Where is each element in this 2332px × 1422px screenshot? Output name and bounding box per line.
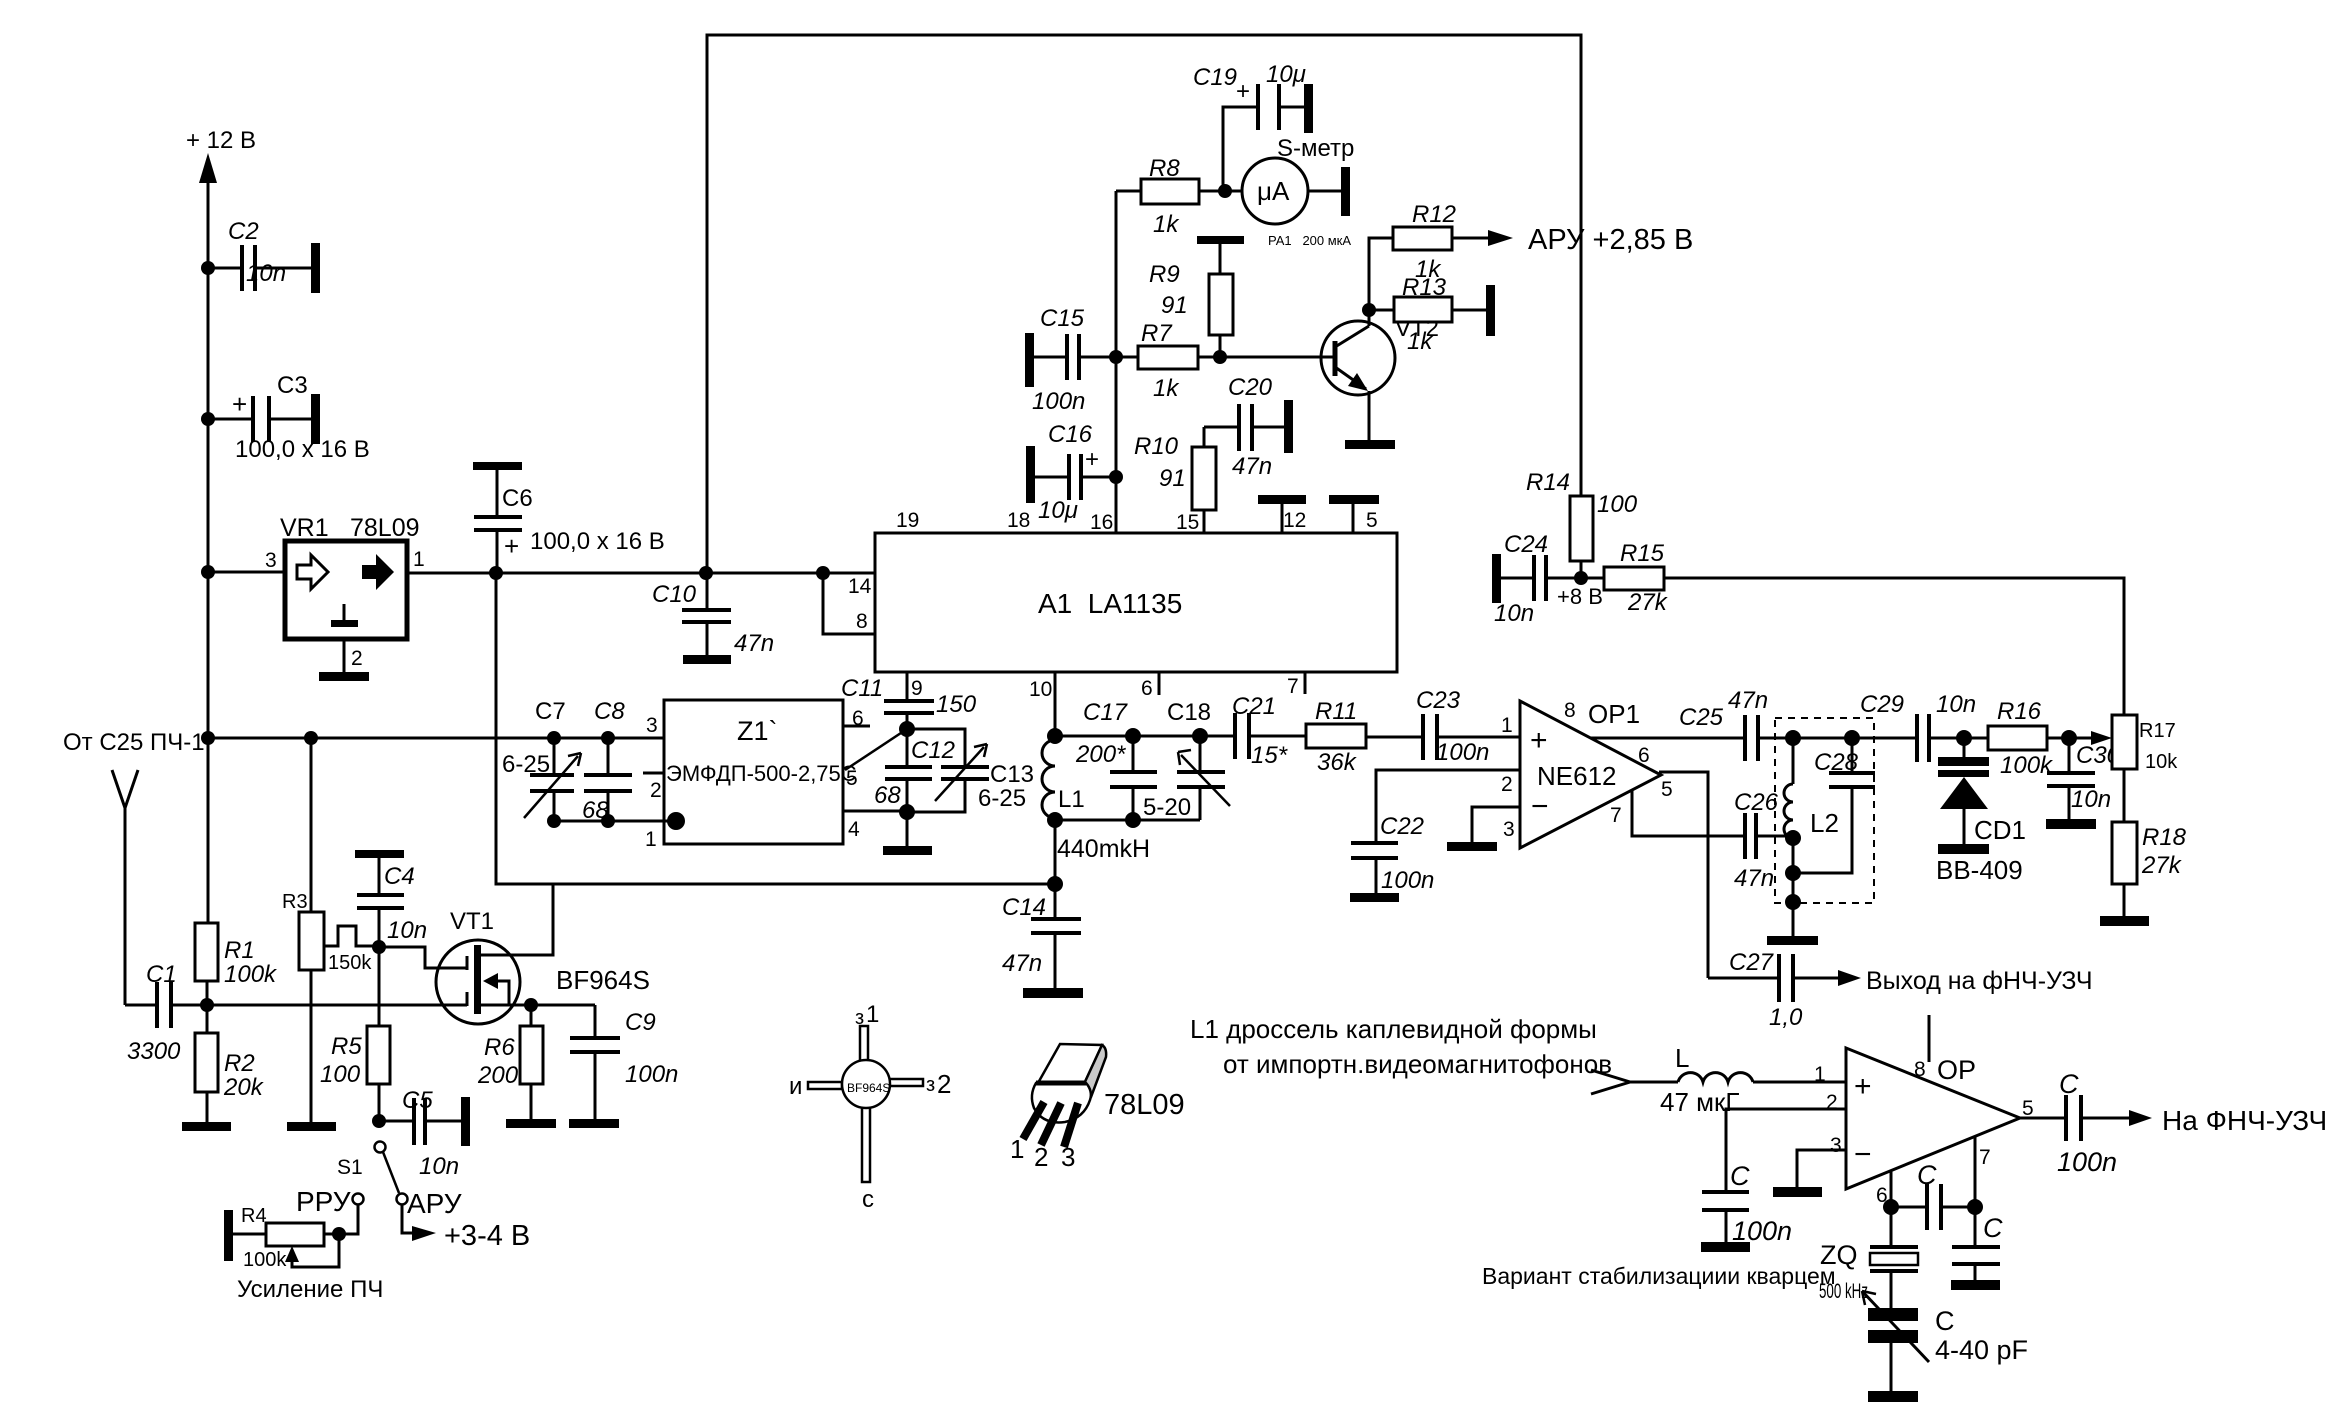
svg-text:1: 1: [1010, 1134, 1024, 1164]
IC 78L09 package icon: [1010, 1044, 1185, 1172]
ground C9: [569, 1119, 619, 1128]
svg-text:R11: R11: [1315, 698, 1357, 725]
capacitor C14: [1002, 884, 1081, 988]
svg-text:3: 3: [1503, 818, 1515, 841]
svg-text:91: 91: [1161, 292, 1188, 319]
svg-text:+: +: [1530, 724, 1548, 757]
resistor R15: [1581, 540, 1669, 616]
wire 9V rail: [407, 566, 875, 580]
svg-text:−: −: [1854, 1138, 1872, 1171]
svg-text:200*: 200*: [1075, 741, 1126, 768]
resistor R8: [1116, 155, 1243, 238]
wire OP pin6 stub: [1883, 1170, 1899, 1215]
svg-text:10n: 10n: [1936, 691, 1976, 718]
svg-text:3: 3: [265, 549, 277, 572]
svg-text:R15: R15: [1620, 540, 1665, 567]
wire IC pin10 stub: [1029, 672, 1055, 736]
wire IC pin5 to ground: [1329, 495, 1379, 533]
capacitor C6 electrolytic: [473, 462, 665, 573]
capacitor C5: [379, 1087, 461, 1180]
wire Z1 pin4 to C12: [843, 810, 908, 813]
capacitor C8: [584, 698, 632, 821]
svg-text:3300: 3300: [127, 1038, 181, 1065]
svg-text:R4: R4: [241, 1205, 267, 1227]
svg-text:5: 5: [1661, 778, 1673, 801]
capacitor C 100n bottom left: [1702, 1161, 1792, 1246]
meter PA1 S-метр: [1242, 135, 1354, 248]
svg-text:6: 6: [1141, 677, 1153, 700]
resistor R16: [1988, 698, 2112, 779]
wire OP1 pin3 to ground: [1447, 807, 1520, 851]
svg-text:C28: C28: [1814, 749, 1859, 776]
svg-text:+: +: [232, 389, 247, 419]
ground C14: [1023, 988, 1083, 998]
svg-text:18: 18: [1007, 509, 1030, 532]
svg-text:14: 14: [848, 575, 872, 598]
diode CD1 BB-409 varicap: [1936, 738, 2026, 885]
svg-text:3: 3: [646, 714, 658, 737]
svg-text:2: 2: [1034, 1142, 1048, 1172]
svg-text:7: 7: [1979, 1146, 1991, 1169]
wire OP1 pin6 out: [1591, 737, 1745, 740]
ground R4: [224, 1210, 233, 1261]
node От С25 ПЧ-1 input label: [63, 729, 205, 756]
ground C2: [311, 243, 320, 293]
svg-text:100,0 x 16 В: 100,0 x 16 В: [530, 528, 665, 555]
wire IC pin9 stub: [907, 672, 923, 701]
wire Z1 pin1 row: [547, 812, 685, 830]
capacitor C1: [125, 961, 214, 1065]
svg-text:R12: R12: [1412, 201, 1456, 228]
svg-text:C6: C6: [502, 485, 533, 512]
switch S1: [337, 1142, 408, 1205]
svg-text:6-25: 6-25: [978, 785, 1026, 812]
capacitor C27: [1708, 949, 1861, 1031]
svg-text:1,0: 1,0: [1769, 1004, 1803, 1031]
wire OP pin8 stub: [1928, 1015, 1931, 1062]
svg-text:OP1: OP1: [1588, 699, 1640, 729]
node АРУ label: [407, 1188, 462, 1219]
svg-text:C2: C2: [228, 218, 259, 245]
svg-text:R2: R2: [224, 1050, 255, 1077]
wire L1 bottom row: [1055, 812, 1200, 828]
svg-text:C5: C5: [402, 1087, 433, 1114]
capacitor C23: [1416, 687, 1520, 766]
node Выход на фНЧ-УЗЧ label: [1866, 967, 2093, 995]
svg-text:10n: 10n: [387, 917, 427, 944]
svg-text:R6: R6: [484, 1034, 515, 1061]
svg-text:+: +: [504, 531, 519, 561]
svg-text:C23: C23: [1416, 687, 1461, 714]
svg-text:АРУ +2,85 В: АРУ +2,85 В: [1528, 224, 1693, 256]
resistor R6: [477, 1005, 543, 1119]
svg-text:100: 100: [1597, 491, 1638, 518]
wire OP1 pin2 to C22: [1376, 770, 1520, 843]
svg-text:7: 7: [1610, 804, 1622, 827]
capacitor C2: [208, 218, 311, 291]
wire OP pin2 to C: [1726, 1109, 1846, 1192]
svg-text:РРУ: РРУ: [296, 1186, 351, 1217]
svg-text:Вариант стабилизациии кварцем: Вариант стабилизациии кварцем: [1482, 1263, 1836, 1289]
wire top feedback loop: [707, 35, 1581, 573]
svg-text:3: 3: [1061, 1142, 1075, 1172]
svg-text:VR1: VR1: [280, 514, 329, 542]
svg-text:68: 68: [874, 782, 901, 809]
svg-text:C14: C14: [1002, 894, 1046, 921]
svg-text:78L09: 78L09: [1104, 1089, 1185, 1121]
svg-text:OP: OP: [1937, 1055, 1976, 1085]
capacitor C10: [652, 573, 774, 657]
wire 9V branch down and across: [496, 573, 1055, 884]
ground C right: [1951, 1280, 2000, 1290]
svg-text:20k: 20k: [223, 1074, 265, 1101]
svg-text:C7: C7: [535, 698, 566, 725]
svg-text:12: 12: [1283, 509, 1306, 532]
node РРУ label: [296, 1186, 351, 1217]
wire IF input row: [208, 731, 664, 745]
svg-text:36k: 36k: [1317, 749, 1358, 776]
node dashed box L2 C28: [1775, 718, 1874, 903]
svg-text:C26: C26: [1734, 789, 1779, 816]
svg-text:100n: 100n: [625, 1061, 678, 1088]
capacitor C4: [355, 850, 427, 947]
capacitor C right to ground: [1952, 1207, 2003, 1280]
ground C20: [1284, 400, 1293, 453]
node Вариант стабилизациии кварцем label: [1482, 1263, 1836, 1289]
transistor VT2: [1321, 303, 1439, 440]
svg-text:1: 1: [413, 548, 425, 571]
svg-text:3: 3: [1830, 1134, 1842, 1157]
capacitor C18 variable: [1143, 699, 1230, 821]
svg-text:10μ: 10μ: [1266, 61, 1306, 88]
svg-text:L1: L1: [1058, 786, 1085, 813]
svg-text:10n: 10n: [419, 1153, 459, 1180]
svg-text:2: 2: [650, 779, 662, 802]
svg-text:C8: C8: [594, 698, 625, 725]
resistor R18: [2112, 822, 2187, 916]
wire source row: [207, 1004, 467, 1007]
svg-text:100n: 100n: [1436, 739, 1489, 766]
capacitor C13 variable: [935, 744, 1034, 812]
node junction dots on +12V rail: [201, 261, 215, 745]
svg-text:R14: R14: [1526, 469, 1570, 496]
svg-text:1: 1: [866, 1001, 879, 1028]
svg-text:На ФНЧ-УЗЧ: На ФНЧ-УЗЧ: [2162, 1105, 2327, 1136]
svg-text:1k: 1k: [1407, 328, 1434, 355]
svg-text:CD1: CD1: [1974, 815, 2026, 845]
svg-text:+: +: [1236, 78, 1250, 105]
resistor R2: [195, 1005, 265, 1122]
potentiometer R4: [233, 1205, 339, 1271]
svg-text:C: C: [1935, 1306, 1955, 1336]
capacitor C26: [1734, 789, 1793, 892]
resistor R10: [1134, 427, 1216, 533]
node Усиление ПЧ label: [237, 1276, 383, 1303]
capacitor C9: [570, 1005, 678, 1119]
wire IC pin12 to ground: [1258, 495, 1306, 533]
svg-text:BB-409: BB-409: [1936, 855, 2023, 885]
svg-text:+: +: [1854, 1070, 1872, 1103]
svg-text:C19: C19: [1193, 64, 1237, 91]
svg-text:NE612: NE612: [1537, 761, 1617, 791]
svg-text:C22: C22: [1380, 813, 1424, 840]
IC A1 LA1135: [875, 533, 1397, 672]
svg-text:6-25: 6-25: [502, 751, 550, 778]
capacitor C22: [1351, 813, 1434, 894]
svg-text:C21: C21: [1232, 693, 1276, 720]
svg-text:5: 5: [1366, 509, 1378, 532]
svg-text:R10: R10: [1134, 433, 1179, 460]
capacitor C16 electrolytic: [1026, 421, 1116, 524]
wire VR1 input: [208, 571, 285, 574]
svg-text:C: C: [1730, 1161, 1750, 1191]
svg-text:R5: R5: [331, 1033, 362, 1060]
svg-text:−: −: [1531, 790, 1549, 823]
ground C10: [683, 655, 731, 664]
ground C 100n bottom left: [1701, 1242, 1750, 1252]
svg-text:4-40 pF: 4-40 pF: [1935, 1335, 2028, 1365]
wire C13 branch box: [907, 729, 965, 812]
svg-text:15*: 15*: [1251, 742, 1288, 769]
crystal ZQ 500 kHz: [1819, 1207, 1918, 1308]
resistor R9: [1149, 236, 1244, 357]
wire РРУ down to R4: [324, 1204, 358, 1241]
node IC top pin labels: [896, 509, 1378, 534]
ground trimmer: [1868, 1391, 1918, 1402]
capacitor C12: [874, 729, 955, 820]
svg-text:C27: C27: [1729, 949, 1775, 976]
inductor L 47мкГ: [1630, 1043, 1846, 1117]
wire IC pin16 vertical: [1109, 191, 1123, 533]
svg-text:з: з: [855, 1007, 864, 1029]
capacitor C21: [1232, 693, 1306, 769]
svg-text:16: 16: [1090, 511, 1113, 534]
ground R3: [287, 1122, 336, 1131]
transistor BF964S pinout icon: [789, 1001, 951, 1213]
node На ФНЧ-УЗЧ label: [2162, 1105, 2327, 1136]
svg-text:C20: C20: [1228, 374, 1273, 401]
svg-text:з: з: [926, 1074, 935, 1096]
capacitor C feedback: [1891, 1160, 1975, 1230]
resistor R14: [1526, 469, 1638, 585]
ground C30: [2046, 819, 2096, 829]
svg-text:2: 2: [937, 1069, 951, 1099]
wire Z1 pin6 stub: [843, 725, 870, 728]
svg-text:47 мкГ: 47 мкГ: [1660, 1087, 1739, 1117]
svg-text:27k: 27k: [1627, 589, 1669, 616]
svg-text:C: C: [1917, 1160, 1937, 1190]
svg-text:с: с: [862, 1186, 874, 1213]
svg-text:Усиление ПЧ: Усиление ПЧ: [237, 1276, 383, 1303]
ground PA1: [1341, 167, 1350, 216]
svg-text:6: 6: [1638, 744, 1650, 767]
svg-text:68: 68: [582, 797, 609, 824]
resistor R11: [1306, 698, 1423, 776]
svg-text:100k: 100k: [224, 961, 278, 988]
node antenna input fork: [112, 770, 138, 1005]
wire R3 to gate with hop: [324, 926, 386, 954]
wire R15 to R17: [1664, 578, 2124, 715]
node +12V supply label: [186, 127, 256, 154]
svg-text:100n: 100n: [1381, 867, 1434, 894]
svg-text:R3: R3: [282, 891, 308, 913]
ground VT2 emitter: [1345, 440, 1395, 449]
svg-text:47n: 47n: [1734, 865, 1774, 892]
svg-text:и: и: [789, 1073, 802, 1100]
capacitor C29: [1860, 691, 1988, 762]
svg-text:L2: L2: [1810, 808, 1839, 838]
svg-text:100n: 100n: [2057, 1147, 2117, 1177]
wire L1 bottom to C14 node: [1047, 820, 1063, 892]
svg-text:АРУ: АРУ: [407, 1188, 462, 1219]
svg-text:1k: 1k: [1153, 211, 1180, 238]
wire АРУ to +3-4V arrow: [402, 1204, 530, 1252]
svg-text:1: 1: [1501, 714, 1513, 737]
svg-text:C15: C15: [1040, 305, 1085, 332]
svg-text:2: 2: [1501, 773, 1513, 796]
svg-text:S1: S1: [337, 1156, 363, 1179]
capacitor C17: [1075, 699, 1157, 820]
svg-text:10k: 10k: [2145, 751, 2178, 773]
svg-text:150k: 150k: [328, 952, 372, 974]
svg-text:19: 19: [896, 509, 919, 532]
svg-text:C13: C13: [990, 761, 1034, 788]
svg-text:L1 дроссель каплевидной формы: L1 дроссель каплевидной формы: [1190, 1014, 1597, 1044]
svg-text:А1 LA1135: А1 LA1135: [1038, 588, 1182, 619]
wire OP1 pin7 to C26: [1632, 790, 1745, 836]
svg-text:C11: C11: [841, 675, 883, 702]
svg-text:15: 15: [1176, 511, 1199, 534]
svg-text:10n: 10n: [2071, 786, 2111, 813]
svg-text:от импортн.видеомагнитофонов: от импортн.видеомагнитофонов: [1223, 1049, 1612, 1079]
svg-text:47n: 47n: [1002, 950, 1042, 977]
svg-text:10: 10: [1029, 678, 1052, 701]
ground C5: [461, 1097, 470, 1146]
svg-text:C: C: [1983, 1213, 2003, 1243]
svg-text:PA1 200 мкА: PA1 200 мкА: [1268, 233, 1351, 248]
svg-text:ЭМФДП-500-2,75С: ЭМФДП-500-2,75С: [666, 761, 857, 786]
node signal source fork bottom: [1591, 1070, 1630, 1094]
resistor R5: [320, 947, 390, 1128]
svg-text:C24: C24: [1504, 531, 1548, 558]
svg-text:C4: C4: [384, 863, 415, 890]
svg-text:Z1`: Z1`: [737, 716, 778, 746]
capacitor C20: [1204, 374, 1284, 480]
svg-text:R13: R13: [1402, 274, 1447, 301]
svg-text:BF964S: BF964S: [556, 965, 650, 995]
svg-text:+8 В: +8 В: [1557, 584, 1603, 609]
svg-text:C: C: [2059, 1069, 2079, 1099]
svg-text:5: 5: [846, 767, 858, 790]
resistor R3: [282, 738, 372, 1122]
wire +12V rail vertical: [199, 153, 217, 923]
capacitor C30: [2047, 738, 2121, 819]
capacitor C 4-40 pF trimmer: [1862, 1291, 2028, 1391]
svg-text:R9: R9: [1149, 261, 1180, 288]
inductor L1: [1042, 728, 1150, 863]
resistor R1: [195, 923, 278, 1005]
inductor L2: [1784, 738, 1839, 936]
svg-text:C10: C10: [652, 581, 697, 608]
svg-text:C3: C3: [277, 372, 308, 399]
capacitor C25: [1679, 687, 1917, 761]
svg-text:47n: 47n: [734, 630, 774, 657]
capacitor C3 electrolytic: [208, 372, 370, 463]
svg-text:μA: μA: [1257, 176, 1290, 206]
svg-text:91: 91: [1159, 465, 1186, 492]
svg-text:100: 100: [320, 1061, 361, 1088]
svg-text:100k: 100k: [243, 1249, 287, 1271]
resistor R7: [1116, 320, 1335, 402]
resistor R12: [1369, 201, 1513, 310]
svg-text:+3-4 В: +3-4 В: [444, 1220, 530, 1252]
wire IC pin14/8 notch: [823, 573, 875, 634]
capacitor C28: [1793, 738, 1875, 873]
wire IC pin7 stub: [1287, 672, 1305, 698]
svg-text:R1: R1: [224, 937, 255, 964]
svg-text:1k: 1k: [1153, 375, 1180, 402]
svg-text:S-метр: S-метр: [1277, 135, 1354, 162]
svg-text:Выход на фНЧ-УЗЧ: Выход на фНЧ-УЗЧ: [1866, 967, 2093, 995]
svg-text:1: 1: [1814, 1063, 1826, 1086]
svg-text:8: 8: [1564, 699, 1576, 722]
ground R6: [506, 1119, 556, 1128]
svg-text:8: 8: [856, 610, 868, 633]
ground C19: [1304, 84, 1313, 133]
svg-text:1: 1: [645, 828, 657, 851]
svg-text:100,0 x 16 В: 100,0 x 16 В: [235, 436, 370, 463]
ground R18: [2100, 916, 2149, 926]
svg-text:100n: 100n: [1732, 1216, 1792, 1246]
svg-text:C16: C16: [1048, 421, 1093, 448]
wire IC pin6 stub: [1141, 672, 1159, 700]
svg-text:R18: R18: [2142, 824, 2187, 851]
capacitor C 100n output: [2057, 1069, 2152, 1177]
svg-text:C1: C1: [146, 961, 177, 988]
capacitor C15: [1025, 305, 1116, 415]
svg-text:+: +: [1085, 446, 1099, 473]
ground L2: [1767, 936, 1818, 945]
wire OP output to C 100n: [2020, 1117, 2066, 1120]
wire OP1 pin5 out: [1659, 772, 1708, 978]
svg-text:+ 12 В: + 12 В: [186, 127, 256, 154]
svg-text:R7: R7: [1141, 320, 1173, 347]
svg-text:2: 2: [1826, 1091, 1838, 1114]
svg-text:R8: R8: [1149, 155, 1180, 182]
svg-text:5-20: 5-20: [1143, 794, 1191, 821]
svg-text:440mkH: 440mkH: [1057, 835, 1150, 863]
ground C12: [883, 812, 932, 855]
svg-text:200: 200: [477, 1062, 519, 1089]
svg-text:100n: 100n: [1032, 388, 1085, 415]
svg-text:C9: C9: [625, 1009, 656, 1036]
ground VR1 pin2: [319, 672, 369, 681]
node АРУ +2,85 В output: [1528, 224, 1693, 256]
svg-text:10n: 10n: [246, 260, 286, 287]
wire OP pin3 to ground: [1773, 1150, 1846, 1197]
capacitor C7 variable: [502, 698, 609, 824]
svg-text:L: L: [1675, 1043, 1689, 1073]
svg-text:C12: C12: [911, 737, 955, 764]
ground CD1: [1938, 844, 1989, 854]
svg-text:100k: 100k: [2000, 752, 2054, 779]
svg-text:C17: C17: [1083, 699, 1129, 726]
voltage regulator VR1 78L09: [265, 514, 425, 672]
svg-text:78L09: 78L09: [350, 514, 420, 542]
svg-text:150: 150: [936, 691, 977, 718]
ground C3: [311, 394, 320, 444]
potentiometer R17: [2112, 715, 2178, 822]
